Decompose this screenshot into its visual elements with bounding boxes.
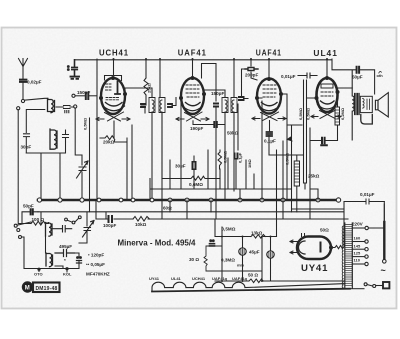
- osc section wires: [39, 212, 79, 272]
- wire mesh above AVC bus: [150, 98, 292, 237]
- UL41 pins: [326, 77, 329, 80]
- reference marks ** with capacitor: [77, 257, 79, 259]
- capacitor 0,1uF (AF coupling): [269, 121, 271, 132]
- tube UCH41 envelope: [101, 78, 125, 114]
- capacitor (UL41 cathode bypass) on wire: [310, 140, 338, 142]
- grid resistors 0,5M (vertical, left of UL41): [304, 80, 307, 189]
- wire: left rail down to wave switch: [17, 110, 19, 224]
- UL41 beam cup and arrows: [318, 105, 337, 110]
- capacitor 30pF: [24, 134, 30, 153]
- capacitor 50uF (electrolytic on HT): [357, 67, 360, 73]
- wire: [22, 237, 56, 269]
- power transformer: [345, 223, 353, 288]
- wire: drop to UAF41-1 top cap: [192, 59, 194, 78]
- heater chain scalloped line: [152, 282, 345, 291]
- heater return line: [152, 289, 350, 292]
- AVC bus junctions: [37, 198, 340, 202]
- wire: bottoms of input section: [26, 142, 65, 153]
- electrolytic 45uF no2: [267, 251, 274, 258]
- oscillator switch contacts right: [65, 218, 68, 221]
- IF transformer 2 left winding: [222, 98, 228, 113]
- wire T2 bottom: [181, 100, 225, 190]
- resistor 20k (horizontal, below T1): [100, 136, 127, 142]
- output transformer primary: [352, 70, 354, 140]
- screen resistor (vertical) near IF1: [144, 59, 148, 105]
- logo emblem: [22, 282, 32, 292]
- resistor 0,6M (horizontal): [162, 176, 220, 180]
- wire: drop to UL41 top cap: [326, 59, 328, 78]
- variable capacitor (osc gang): [79, 212, 91, 243]
- wire: left long vertical from top bus to AVC bus: [96, 59, 98, 200]
- speaker: [375, 100, 378, 110]
- UAF41-1 internals: [186, 85, 199, 97]
- band switch contact (antenna): [21, 99, 24, 102]
- padder capacitors: [53, 226, 72, 233]
- capacitor 0,05uF (tone, marked **): [210, 240, 212, 242]
- IF2 trimmer capacitor left: [214, 104, 218, 107]
- resistor 0,5M (vertical AVC): [218, 150, 222, 169]
- IF2 trimmer capacitor right: [239, 97, 244, 100]
- UCH41 internals: [106, 84, 121, 100]
- UCH41 pins: [112, 77, 115, 80]
- capacitor 190pF: [214, 122, 217, 127]
- terminal label OTO: [38, 268, 40, 270]
- mains plug: [383, 282, 389, 288]
- IF1 trimmer capacitors: [141, 104, 145, 107]
- wire: antenna cap to band switch: [22, 82, 24, 99]
- HT decoupling capacitor to chassis: [72, 60, 78, 76]
- output transformer core: [355, 94, 360, 115]
- wire: top HT supply bus: [75, 59, 333, 61]
- tube UAF41 (2) envelope: [257, 79, 281, 114]
- antenna: [19, 59, 28, 80]
- UAF41-1 beam cup and arrows: [183, 106, 203, 111]
- IF transformer 2 right winding: [231, 98, 237, 113]
- capacitor 50pF (series in AVC return): [31, 209, 33, 214]
- AVC line y219 with components: [96, 218, 348, 220]
- wire trimmer to coil: [56, 106, 74, 108]
- UAF41-1 pins: [191, 77, 194, 80]
- input coil L2: [50, 129, 57, 149]
- electrolytic 45uF no1: [239, 248, 246, 255]
- wire under T1: [114, 121, 132, 200]
- chassis ground terminal: [71, 77, 80, 79]
- capacitor (AVC): [235, 154, 238, 159]
- capacitor (input tuned): [63, 130, 69, 142]
- IF2 wires: [202, 59, 249, 219]
- terminal label KOL: [66, 268, 68, 270]
- switch arm to antenna coil: [24, 98, 48, 100]
- ground line y212: [38, 211, 344, 213]
- antenna coil L1: [48, 99, 55, 113]
- capacitor 100pF: [109, 216, 113, 222]
- misc mid verticals: [96, 125, 318, 219]
- capacitor 100pF (osc): [105, 212, 107, 219]
- AF wires: [215, 219, 271, 281]
- tube UAF41 (1) envelope: [181, 78, 204, 114]
- voltage selector bar: [383, 222, 385, 259]
- UL41 internals: [321, 84, 333, 88]
- oscillator coil L3: [46, 223, 53, 237]
- mains switch: [350, 288, 364, 290]
- diode load resistor vertical: [281, 94, 287, 200]
- IF1 wires: [125, 59, 176, 219]
- rectifier UY41: [297, 237, 331, 260]
- wire: drop from top bus to UCH41 anode bridge: [105, 59, 122, 81]
- wire: drop to UAF41-2 top cap: [268, 59, 270, 79]
- UCH41 beam cup and arrows: [103, 106, 125, 111]
- IF transformer 1 right winding: [159, 98, 165, 113]
- wire UL41 anode to primary: [338, 88, 353, 92]
- IF transformer 1 left winding: [149, 98, 155, 113]
- UAF41-2 internals: [263, 85, 276, 97]
- resistor 25k (box): [294, 161, 299, 186]
- output transformer secondary: [360, 96, 372, 112]
- oscillator coil L4: [46, 253, 53, 267]
- wire to 150pF: [75, 95, 84, 97]
- capacitor 0,02uF (antenna series): [20, 80, 26, 82]
- UAF41-2 beam cup and arrows: [259, 106, 280, 111]
- resistor 10k: [133, 217, 150, 222]
- AVC bus (thick): [38, 199, 337, 202]
- volume potentiometer wiper arrow: [287, 137, 292, 141]
- oscillator switch contacts: [14, 224, 17, 227]
- trimmer capacitor (antenna): [64, 106, 71, 113]
- tube UL41 envelope: [317, 78, 338, 112]
- variable capacitor (RF tuning gang): [79, 155, 86, 200]
- wire: AVC return rail: [89, 118, 91, 212]
- capacitor 200pF (T3 top): [245, 68, 258, 71]
- UAF41-2 pins: [268, 78, 271, 81]
- wire from switch to gang: [75, 108, 82, 155]
- wire: coil A bottom row: [26, 110, 45, 133]
- band switch contact (earth side): [17, 107, 20, 110]
- switch contact (to 150pF): [72, 94, 75, 97]
- voice coil return hook: [361, 115, 373, 125]
- wire: input section verticals to AVC bus: [41, 153, 60, 200]
- wire: HT line to speaker: [332, 59, 375, 94]
- cathode resistor UL41 (box): [335, 107, 340, 125]
